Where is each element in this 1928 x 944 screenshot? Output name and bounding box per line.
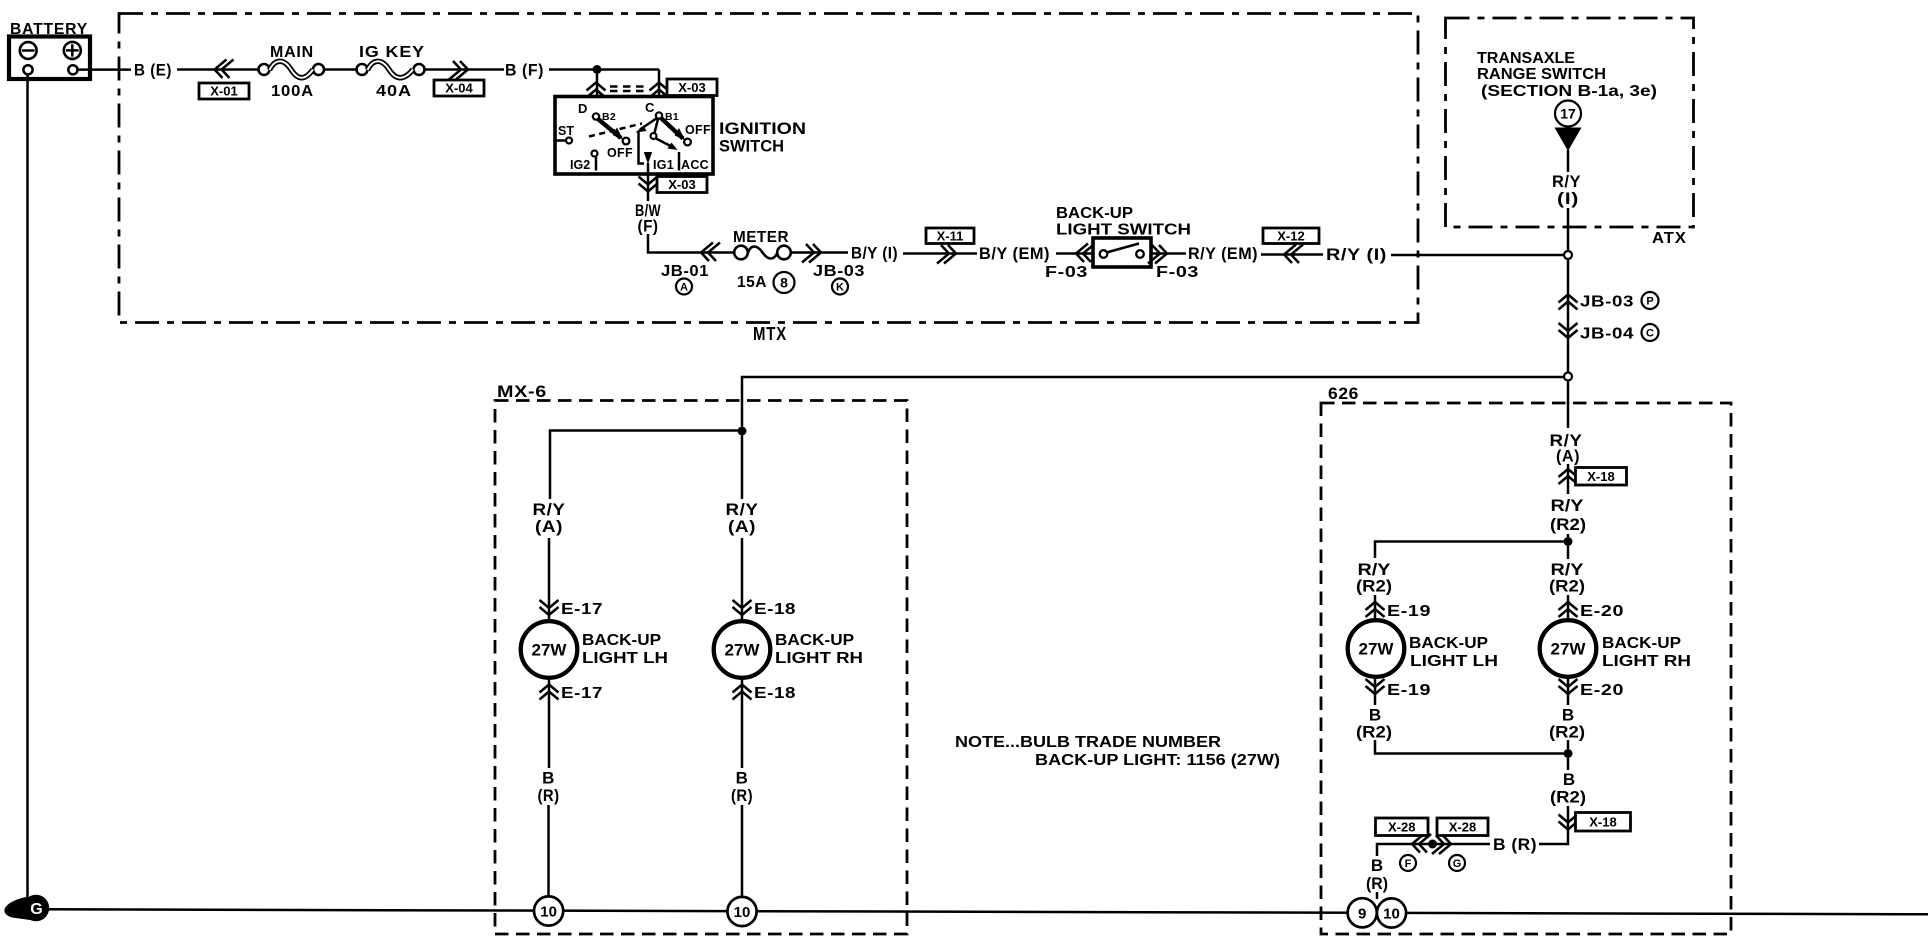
svg-text:OFF: OFF	[685, 123, 711, 137]
svg-text:A: A	[680, 281, 688, 293]
svg-text:X-03: X-03	[678, 80, 705, 95]
wire branch to MX-6	[742, 377, 1564, 427]
svg-text:ACC: ACC	[681, 158, 709, 172]
wire label B bottom 626	[1366, 856, 1388, 893]
circled K	[832, 279, 848, 295]
svg-text:F-03: F-03	[1156, 264, 1199, 281]
wire IG KEY to X-04	[425, 68, 505, 71]
connector label X-18 top	[1576, 468, 1627, 486]
svg-text:NOTE...BULB TRADE NUMBER: NOTE...BULB TRADE NUMBER	[955, 734, 1222, 751]
wiper line C to contact	[655, 119, 659, 133]
connector label X-04	[434, 80, 484, 96]
fuse MAIN 100A fusible link	[259, 61, 325, 77]
wire label R/Y right 626	[1549, 560, 1585, 596]
connector label X-18 bottom	[1576, 813, 1631, 832]
svg-text:B: B	[1371, 856, 1383, 875]
svg-text:LIGHT LH: LIGHT LH	[582, 650, 668, 667]
svg-text:X-18: X-18	[1589, 814, 1616, 829]
ATX dashed box	[1446, 18, 1694, 227]
wire to ground 10 LH	[547, 805, 550, 896]
connector X-11 chevrons	[937, 245, 956, 264]
wire 626 LH to bottom junction	[1375, 740, 1564, 754]
wire label R/Y (R2) 626	[1550, 496, 1586, 534]
svg-text:9: 9	[1358, 905, 1366, 922]
label BACK-UP LIGHT RH 626	[1602, 635, 1691, 670]
wire to X-11	[903, 252, 977, 255]
wire to junction	[1567, 534, 1570, 537]
svg-text:BACK-UP: BACK-UP	[1602, 635, 1681, 652]
connector E-18 top chevrons	[733, 600, 752, 615]
svg-text:X-04: X-04	[445, 81, 473, 96]
svg-text:R/Y (I): R/Y (I)	[1326, 245, 1387, 264]
lamp back-up light RH MX-6 27W	[714, 621, 771, 678]
svg-text:(R): (R)	[538, 786, 560, 805]
wiper line down to IG1	[639, 131, 653, 164]
svg-text:IGNITION: IGNITION	[719, 119, 806, 138]
mechanical link dashed	[589, 124, 642, 137]
wire bulb to B(R2) 626 RH	[1567, 678, 1570, 706]
wire to X-01	[177, 68, 259, 71]
svg-text:LIGHT RH: LIGHT RH	[775, 650, 863, 667]
svg-text:B (F): B (F)	[505, 61, 544, 80]
svg-text:X-03: X-03	[668, 177, 695, 192]
junction node B(F)	[593, 65, 602, 74]
svg-text:E-19: E-19	[1387, 682, 1431, 699]
wire label B left 626	[1356, 706, 1392, 742]
ground G	[4, 895, 49, 921]
svg-text:B: B	[1563, 770, 1575, 789]
node R/Y (I) junction	[1564, 251, 1572, 259]
svg-text:(R2): (R2)	[1550, 515, 1586, 534]
svg-text:(R2): (R2)	[1549, 577, 1585, 596]
svg-text:(I): (I)	[1557, 189, 1579, 208]
svg-text:B/Y (I): B/Y (I)	[851, 244, 898, 263]
label BACK-UP LIGHT RH	[775, 632, 863, 667]
connector label X-28 right	[1437, 818, 1488, 836]
svg-text:B (R): B (R)	[1493, 835, 1537, 854]
svg-text:(R): (R)	[1366, 874, 1388, 893]
ground bus wire	[40, 909, 1928, 914]
wire B(F) to junction	[549, 68, 659, 71]
wire 626 branch left	[1375, 542, 1564, 559]
svg-text:40A: 40A	[376, 83, 412, 100]
svg-text:X-28: X-28	[1449, 819, 1476, 834]
label BACK-UP LIGHT LH	[582, 632, 668, 667]
wire junction down through X-18	[1567, 758, 1570, 770]
svg-text:(R): (R)	[731, 786, 753, 805]
wire MX-6 branch left	[550, 431, 738, 500]
svg-text:JB-03: JB-03	[813, 263, 865, 280]
connector X-18 bottom chevrons	[1559, 815, 1578, 830]
svg-text:D: D	[578, 101, 587, 116]
ground 10 MX-6 RH	[727, 897, 756, 926]
circled 17 transaxle range switch	[1555, 101, 1581, 127]
connector E-17 top chevrons	[540, 600, 559, 615]
connector X-12 chevrons	[1284, 245, 1303, 264]
svg-text:15A: 15A	[737, 274, 767, 291]
wire bulb LH to B(R)	[548, 678, 551, 768]
626 dashed box	[1321, 403, 1731, 934]
wire to E-19	[1374, 595, 1377, 620]
transaxle range switch label	[1477, 50, 1657, 100]
svg-text:IG KEY: IG KEY	[359, 44, 425, 61]
circled G	[1449, 855, 1465, 871]
wire battery negative down to ground	[26, 75, 29, 898]
svg-text:(R2): (R2)	[1356, 723, 1392, 742]
svg-text:SWITCH: SWITCH	[719, 137, 784, 156]
connector X-28 right chevrons	[1432, 836, 1451, 855]
svg-text:LIGHT RH: LIGHT RH	[1602, 653, 1691, 670]
switch arm B1-OFF	[661, 118, 691, 145]
wire to X-18	[1567, 464, 1570, 494]
svg-text:B/Y (EM): B/Y (EM)	[979, 244, 1050, 263]
ignition switch box U1	[555, 97, 713, 175]
ground 10 MX-6 LH	[534, 896, 563, 925]
connector JB-01 chevrons	[701, 243, 720, 262]
connector E-17 bottom chevrons	[540, 685, 559, 700]
terminal D	[578, 101, 599, 120]
svg-text:B: B	[736, 769, 749, 788]
svg-text:BACK-UP: BACK-UP	[775, 632, 854, 649]
junction node 626 bottom	[1564, 749, 1573, 758]
circled F	[1400, 855, 1416, 871]
node branch to MX-6	[1564, 373, 1572, 381]
connector label X-03 bottom	[657, 177, 707, 193]
connector E-19 bottom chevrons	[1366, 679, 1385, 694]
wire MAIN to IG KEY	[324, 68, 357, 71]
lamp back-up light LH MX-6 27W	[521, 621, 578, 678]
wire label B right 626	[1549, 706, 1585, 742]
svg-text:K: K	[836, 281, 844, 293]
svg-text:G: G	[30, 901, 42, 918]
connector X-03 dashed pair lines	[610, 87, 649, 92]
svg-text:B (E): B (E)	[134, 61, 172, 80]
svg-text:BACK-UP: BACK-UP	[582, 632, 661, 649]
svg-text:MAIN: MAIN	[270, 44, 314, 61]
svg-text:(R2): (R2)	[1549, 723, 1585, 742]
svg-text:E-18: E-18	[754, 685, 796, 702]
connector X-03 chevrons left	[587, 83, 606, 98]
connector label X-11	[926, 228, 974, 244]
wire to ground 9/10	[1376, 892, 1379, 899]
svg-text:G: G	[1453, 858, 1462, 870]
svg-text:17: 17	[1560, 106, 1576, 122]
svg-text:F-03: F-03	[1045, 264, 1088, 281]
connector E-19 top chevrons	[1366, 602, 1385, 617]
svg-text:F: F	[1405, 858, 1412, 870]
back-up light switch S1	[1093, 238, 1151, 267]
svg-text:27W: 27W	[1359, 640, 1395, 659]
svg-text:(F): (F)	[638, 217, 659, 236]
wiper line C to link arrow	[636, 118, 658, 133]
svg-text:P: P	[1646, 295, 1653, 307]
svg-text:X-28: X-28	[1388, 819, 1415, 834]
svg-text:(SECTION B-1a, 3e): (SECTION B-1a, 3e)	[1481, 83, 1657, 100]
MTX harness dashed box	[119, 14, 1418, 323]
connector JB-04 chevrons	[1559, 323, 1578, 338]
connector label X-12	[1263, 228, 1319, 244]
svg-text:BACK-UP: BACK-UP	[1056, 205, 1133, 222]
svg-text:JB-03: JB-03	[1580, 294, 1634, 311]
svg-text:X-11: X-11	[937, 228, 964, 243]
MX-6 dashed box	[495, 401, 907, 935]
svg-text:(A): (A)	[535, 517, 563, 536]
wire switch to F-03 right	[1151, 252, 1186, 255]
wire label R/Y left 626	[1356, 560, 1392, 596]
wire to X-12	[1261, 253, 1323, 256]
terminal ST	[555, 124, 574, 144]
svg-text:R/Y: R/Y	[1551, 496, 1585, 515]
wire down to ignition switch C terminal	[658, 70, 661, 113]
svg-text:(A): (A)	[1556, 447, 1580, 466]
svg-text:X-18: X-18	[1587, 469, 1614, 484]
connector label X-01	[199, 83, 249, 99]
svg-text:RANGE SWITCH: RANGE SWITCH	[1477, 66, 1606, 83]
svg-text:BACK-UP: BACK-UP	[1409, 635, 1488, 652]
wire 626 branch right down	[1567, 546, 1570, 559]
wire R/Y (I) to ATX node	[1391, 254, 1563, 257]
connector E-20 bottom chevrons	[1559, 679, 1578, 694]
svg-text:OFF: OFF	[607, 146, 633, 160]
svg-text:626: 626	[1328, 384, 1359, 403]
wire to E-17 LH	[548, 538, 551, 620]
connector F-03 left chevrons	[1076, 244, 1095, 263]
connector X-03 chevrons right	[650, 83, 669, 98]
wire MX-6 branch right down	[741, 436, 744, 500]
connector X-03 bottom chevrons	[639, 177, 658, 192]
svg-text:LIGHT SWITCH: LIGHT SWITCH	[1056, 222, 1191, 239]
wire to E-20	[1567, 595, 1570, 620]
connector X-18 top chevrons	[1559, 469, 1578, 484]
wire ignition switch output	[647, 163, 650, 201]
svg-text:27W: 27W	[725, 641, 761, 660]
wire to back-up light switch	[1056, 252, 1093, 255]
circled C	[1642, 324, 1659, 341]
battery	[9, 37, 90, 80]
connector label X-03 top	[667, 79, 717, 96]
note text	[955, 734, 1280, 769]
svg-text:B: B	[542, 769, 555, 788]
junction node MX-6	[738, 427, 747, 436]
label BACK-UP LIGHT LH 626	[1409, 635, 1498, 670]
svg-text:METER: METER	[733, 229, 789, 246]
arrow from transaxle range switch	[1555, 128, 1582, 152]
svg-text:X-01: X-01	[210, 84, 237, 99]
wire below arrow	[1567, 150, 1570, 172]
wire node to JB-04	[1567, 259, 1570, 372]
svg-text:ST: ST	[558, 124, 574, 138]
wire bulb RH to B(R)	[741, 678, 744, 768]
wire node down into 626	[1567, 381, 1570, 428]
svg-text:E-19: E-19	[1387, 603, 1431, 620]
svg-text:C: C	[645, 100, 655, 115]
wire B/W down and right to meter fuse	[648, 234, 735, 253]
svg-text:IG2: IG2	[570, 158, 590, 172]
svg-text:E-20: E-20	[1580, 603, 1624, 620]
wire down to ignition switch D terminal	[596, 74, 599, 113]
wire bulb to B(R2) 626 LH	[1374, 678, 1377, 706]
svg-text:C: C	[1646, 327, 1654, 339]
svg-text:(A): (A)	[728, 517, 756, 536]
ground 10 626	[1377, 898, 1406, 927]
fuse IG KEY 40A fusible link	[357, 61, 425, 77]
svg-text:10: 10	[734, 904, 751, 921]
connector JB-03 vertical chevrons	[1559, 295, 1578, 310]
wire battery B(E) feed	[78, 68, 132, 71]
svg-text:10: 10	[1383, 906, 1400, 923]
junction X-28 mate	[1428, 840, 1437, 849]
svg-text:27W: 27W	[1551, 640, 1587, 659]
connector JB-03 chevrons	[802, 244, 821, 263]
svg-text:IG1: IG1	[653, 158, 674, 172]
lamp back-up light RH 626 27W	[1540, 620, 1597, 677]
switch arm B2-OFF	[598, 119, 629, 144]
svg-text:BACK-UP LIGHT: 1156 (27W): BACK-UP LIGHT: 1156 (27W)	[1035, 752, 1280, 769]
ignition switch label IGNITION SWITCH	[719, 119, 806, 156]
wire to node	[1567, 208, 1570, 251]
wire to bottom junction	[1567, 740, 1570, 749]
circled P	[1642, 292, 1659, 309]
circled A	[676, 279, 692, 295]
connector E-20 top chevrons	[1559, 602, 1578, 617]
connector X-01 chevrons	[215, 60, 234, 79]
svg-text:ATX: ATX	[1652, 230, 1687, 247]
wiper contact circle	[651, 133, 657, 139]
svg-text:JB-04: JB-04	[1580, 326, 1634, 343]
ground 9 626	[1348, 898, 1377, 927]
wiper line contact to ACC	[656, 139, 679, 171]
connector label X-28 left	[1376, 818, 1429, 836]
connector E-18 bottom chevrons	[733, 685, 752, 700]
svg-text:X-12: X-12	[1277, 228, 1304, 243]
svg-text:(R2): (R2)	[1550, 788, 1586, 807]
svg-text:E-20: E-20	[1580, 682, 1624, 699]
svg-text:8: 8	[780, 275, 788, 291]
terminal IG2	[570, 151, 598, 173]
svg-text:(R2): (R2)	[1356, 577, 1392, 596]
svg-text:TRANSAXLE: TRANSAXLE	[1477, 50, 1575, 67]
junction node 626 top	[1564, 537, 1573, 546]
fuse METER 15A	[734, 246, 791, 260]
svg-text:E-18: E-18	[754, 601, 796, 618]
svg-text:E-17: E-17	[561, 685, 603, 702]
svg-text:100A: 100A	[271, 83, 314, 100]
svg-text:JB-01: JB-01	[661, 263, 709, 280]
connector X-04 chevrons	[449, 61, 468, 80]
svg-text:E-17: E-17	[561, 601, 603, 618]
svg-text:27W: 27W	[532, 641, 568, 660]
circled 8	[774, 272, 795, 293]
wire label B below junction	[1550, 770, 1586, 807]
wire to ground 10 RH	[741, 805, 744, 896]
wire fuse to JB-03	[791, 251, 848, 254]
svg-text:LIGHT LH: LIGHT LH	[1410, 653, 1498, 670]
lamp back-up light LH 626 27W	[1348, 620, 1405, 677]
svg-text:10: 10	[540, 904, 557, 921]
connector X-28 left chevrons	[1412, 834, 1431, 853]
svg-text:MTX: MTX	[753, 324, 787, 344]
terminal C	[645, 100, 662, 119]
svg-text:MX-6: MX-6	[497, 382, 547, 401]
connector F-03 right chevrons	[1148, 245, 1167, 264]
svg-text:R/Y (EM): R/Y (EM)	[1188, 244, 1258, 263]
label BACK-UP LIGHT SWITCH	[1056, 205, 1191, 239]
wire B(R) to X-28	[1377, 844, 1490, 856]
wire to E-18 RH	[741, 538, 744, 620]
